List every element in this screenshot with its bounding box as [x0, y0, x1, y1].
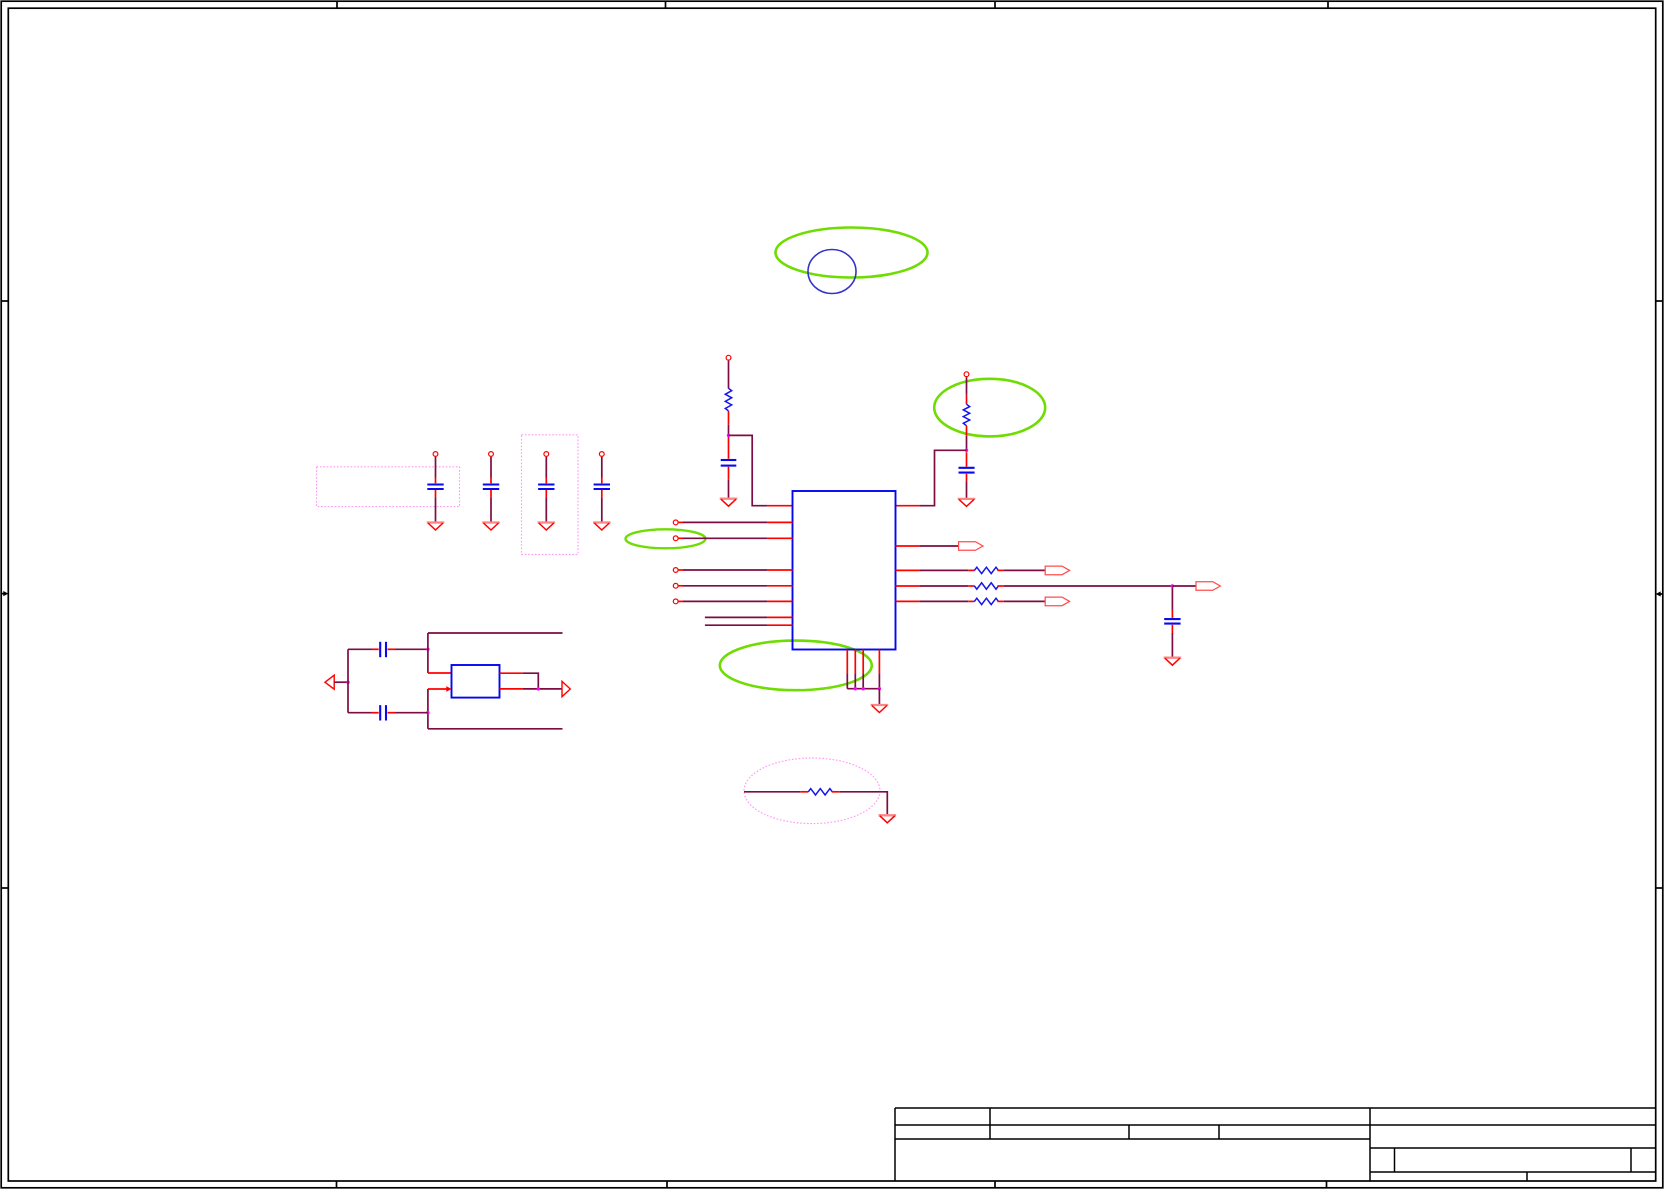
- junction: [1171, 584, 1174, 587]
- wire: [1004, 585, 1173, 587]
- junction: [426, 711, 429, 714]
- resistor stub: [997, 585, 1003, 587]
- wire: [601, 497, 603, 522]
- wire: [729, 435, 768, 505]
- terminal T6: [673, 583, 678, 588]
- ground: [720, 498, 738, 500]
- wire: [854, 673, 856, 689]
- resistor stub: [728, 411, 730, 425]
- wire: [920, 585, 969, 587]
- ground: [427, 521, 445, 523]
- wire: [396, 712, 428, 714]
- wire stub: [435, 490, 437, 497]
- junction: [537, 687, 540, 690]
- wire: [1171, 633, 1173, 657]
- pin stub: [767, 585, 792, 587]
- junction: [346, 681, 349, 684]
- capacitor C1: [427, 485, 443, 490]
- wire stub: [601, 490, 603, 497]
- pin stub: [428, 672, 452, 674]
- resistor stub: [997, 600, 1003, 602]
- wire: [878, 689, 880, 704]
- wire: [705, 624, 768, 626]
- wire: [545, 497, 547, 522]
- wire stub: [372, 648, 379, 650]
- junction: [878, 687, 881, 690]
- wire: [1004, 569, 1045, 571]
- wire: [846, 673, 848, 689]
- wire: [428, 632, 563, 634]
- capacitor C4: [594, 485, 610, 490]
- junction: [862, 687, 865, 690]
- wire: [920, 600, 969, 602]
- port P2: [1045, 566, 1069, 575]
- ground: [879, 814, 897, 816]
- wire stub: [388, 712, 396, 714]
- resistor stub: [997, 569, 1003, 571]
- wire stub: [679, 569, 684, 571]
- capacitor C8: [959, 468, 975, 473]
- port P1: [959, 542, 983, 551]
- wire: [840, 792, 888, 815]
- wire stub: [728, 437, 730, 459]
- junction: [965, 449, 968, 452]
- ground: [1164, 657, 1182, 659]
- resistor stub: [968, 569, 974, 571]
- wire: [683, 521, 767, 523]
- wire: [490, 457, 492, 478]
- capacitor C4 terminal: [599, 452, 604, 457]
- wire stub: [435, 478, 437, 484]
- wire: [728, 480, 730, 498]
- wire: [334, 681, 348, 683]
- wire: [847, 688, 879, 690]
- wire: [1004, 600, 1045, 602]
- pin stub: [896, 585, 920, 587]
- pin stub: [767, 616, 792, 618]
- terminal T7: [673, 599, 678, 604]
- wire: [348, 648, 372, 650]
- wire stub: [545, 478, 547, 484]
- wire: [427, 689, 429, 729]
- ground: [871, 704, 889, 706]
- wire: [545, 457, 547, 478]
- terminal T3: [673, 520, 678, 525]
- terminal T2: [964, 372, 969, 377]
- wire: [728, 361, 730, 389]
- port P3: [1196, 582, 1220, 591]
- pin stub with arrow: [428, 688, 447, 690]
- pin stub: [878, 650, 880, 674]
- resistor R5: [808, 789, 832, 795]
- pin stub: [500, 688, 523, 690]
- resistor R1: [725, 388, 731, 411]
- pin stub: [846, 650, 848, 674]
- wire stub: [679, 521, 684, 523]
- wire stub: [679, 585, 684, 587]
- pin stub: [854, 650, 856, 674]
- capacitor C1 terminal: [433, 452, 438, 457]
- pin stub: [767, 537, 792, 539]
- annotation circle A1: [808, 250, 856, 294]
- wire stub: [1171, 625, 1173, 633]
- wire: [435, 457, 437, 478]
- wire: [396, 648, 428, 650]
- resistor stub: [966, 426, 968, 436]
- resistor R3: [974, 567, 998, 573]
- wire: [966, 377, 968, 395]
- capacitor C7: [721, 460, 737, 466]
- ground: [593, 521, 611, 523]
- pin stub: [896, 600, 920, 602]
- wire stub: [372, 712, 379, 714]
- wire: [920, 569, 969, 571]
- wire stub: [545, 490, 547, 497]
- highlight ellipse H2: [934, 379, 1045, 437]
- capacitor C6: [380, 705, 386, 720]
- capacitor C9: [1164, 619, 1180, 624]
- pin stub: [767, 600, 792, 602]
- pin stub: [896, 569, 920, 571]
- wire stub: [728, 467, 730, 480]
- pin stub: [767, 624, 792, 626]
- resistor stub: [832, 791, 840, 793]
- arrowhead: [446, 686, 451, 692]
- crystal Y1: [452, 665, 500, 698]
- DNI dashed ellipse B3: [744, 758, 880, 824]
- port P4: [1045, 597, 1069, 606]
- wire: [878, 673, 880, 689]
- wire: [523, 688, 562, 690]
- pin stub: [767, 569, 792, 571]
- highlight ellipse H3: [720, 641, 872, 691]
- capacitor C2 terminal: [489, 452, 494, 457]
- ground: [958, 498, 976, 500]
- junction: [727, 434, 730, 437]
- wire: [1172, 585, 1196, 587]
- wire stub: [490, 490, 492, 497]
- wire: [428, 728, 563, 730]
- pin stub: [896, 505, 920, 507]
- IC U1: [793, 491, 896, 650]
- wire: [347, 649, 349, 712]
- highlight ellipse H4: [626, 529, 706, 548]
- capacitor C2: [483, 485, 499, 490]
- wire: [728, 425, 730, 436]
- wire: [966, 481, 968, 498]
- resistor stub: [800, 791, 808, 793]
- wire: [427, 633, 429, 673]
- wire: [683, 585, 767, 587]
- wire: [435, 497, 437, 522]
- wire: [862, 673, 864, 689]
- wire: [683, 600, 767, 602]
- highlight ellipse H1: [776, 228, 928, 278]
- wire: [920, 545, 959, 547]
- pin stub: [862, 650, 864, 674]
- wire: [601, 457, 603, 478]
- DNI dashed box B2: [522, 435, 579, 555]
- wire: [523, 673, 538, 689]
- pin stub: [896, 545, 920, 547]
- wire stub: [490, 478, 492, 484]
- resistor stub: [968, 600, 974, 602]
- capacitor C5: [380, 642, 386, 657]
- ground: [482, 521, 500, 523]
- wire stub: [1171, 588, 1173, 610]
- wire stub: [679, 600, 684, 602]
- port arrow right: [562, 681, 570, 696]
- resistor R6: [974, 598, 998, 604]
- capacitor C3: [538, 485, 554, 490]
- terminal T5: [673, 568, 678, 573]
- wire: [348, 712, 372, 714]
- wire stub: [966, 474, 968, 481]
- ground: [538, 521, 556, 523]
- wire: [920, 450, 967, 505]
- pin stub: [767, 521, 792, 523]
- wire: [683, 569, 767, 571]
- wire: [490, 497, 492, 522]
- pin stub: [500, 672, 523, 674]
- wire: [744, 791, 800, 793]
- junction: [854, 687, 857, 690]
- resistor R4: [974, 583, 998, 589]
- terminal T1: [726, 355, 731, 360]
- junction: [426, 648, 429, 651]
- terminal T4: [673, 536, 678, 541]
- wire stub: [388, 648, 396, 650]
- resistor R2: [963, 404, 969, 426]
- wire: [705, 616, 768, 618]
- resistor stub: [968, 585, 974, 587]
- wire stub: [601, 478, 603, 484]
- wire: [683, 537, 767, 539]
- wire stub: [679, 537, 684, 539]
- pin stub: [767, 505, 792, 507]
- port arrow left: [325, 675, 334, 689]
- capacitor C3 terminal: [544, 452, 549, 457]
- resistor stub: [966, 395, 968, 404]
- wire stub: [966, 452, 968, 467]
- DNI dashed box B1: [317, 467, 460, 507]
- wire: [966, 436, 968, 451]
